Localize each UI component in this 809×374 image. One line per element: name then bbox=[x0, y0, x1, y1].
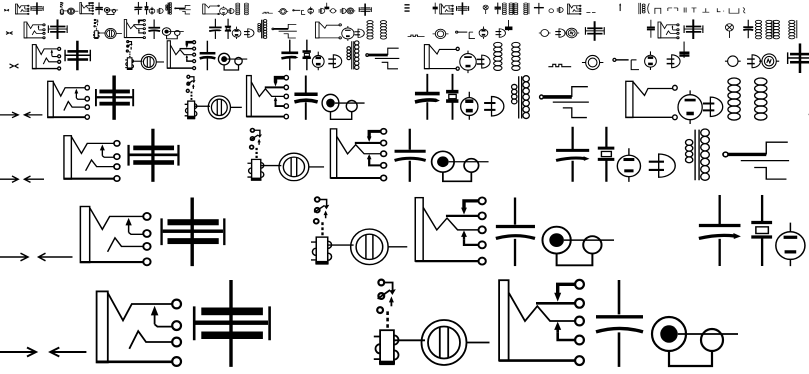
row 2 arrow pair bbox=[6, 32, 13, 35]
row 4 arrow pair bbox=[0, 112, 42, 118]
row 6: symbol strip bbox=[80, 195, 809, 273]
row 6 arrow pair bbox=[0, 253, 73, 261]
row 4: symbol strip bbox=[48, 74, 809, 124]
row 3: symbol strip bbox=[32, 40, 809, 73]
row 1 arrow pair bbox=[4, 9, 9, 11]
row 7 arrow pair bbox=[0, 348, 86, 357]
row 5 arrow pair bbox=[0, 176, 44, 182]
row 1: symbol strip at smallest zoom bbox=[15, 2, 745, 16]
row 7: symbol strip at largest zoom bbox=[97, 277, 809, 374]
row 3 arrow pair bbox=[10, 64, 19, 68]
row 5: symbol strip bbox=[64, 127, 809, 187]
row 2: symbol strip bbox=[24, 19, 809, 41]
capacitor stack glyph (row 1 only) bbox=[404, 5, 409, 11]
